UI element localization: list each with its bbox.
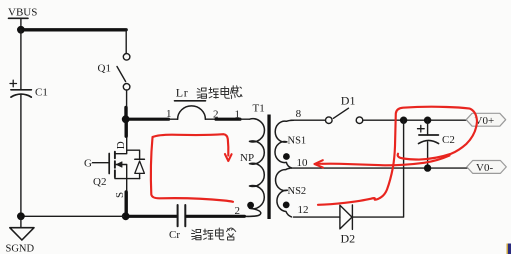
svg-text:D1: D1 [341, 94, 356, 108]
wire thick pin2 to pin1 [216, 118, 240, 121]
junction C2 branch on top wire [424, 117, 431, 124]
svg-text:G: G [84, 158, 92, 170]
wire pin10 center tap to V0- [291, 167, 467, 169]
svg-text:1: 1 [166, 108, 172, 120]
wire gate lead [93, 162, 110, 164]
junction half-bridge node [122, 115, 130, 123]
wire thick to Lr [126, 118, 169, 121]
wire switch Q1 upper lead [125, 30, 127, 54]
net flag V0- [467, 161, 507, 175]
svg-text:D: D [115, 141, 127, 149]
capacitor C1 [10, 80, 33, 97]
transformer T1 secondary winding NS2 [276, 168, 292, 217]
svg-text:Cr: Cr [169, 229, 180, 241]
svg-text:Q1: Q1 [98, 63, 111, 75]
transistor Q2 MOSFET [109, 136, 144, 193]
net flag V0+ [466, 113, 506, 127]
svg-text:NP: NP [240, 152, 254, 164]
wire left rail [20, 30, 22, 217]
switch Q1 [117, 54, 130, 91]
capacitor C2 [418, 120, 439, 167]
wire switch Q1 lower lead [126, 90, 128, 108]
capacitor Cr [178, 205, 186, 226]
junction VBUS node [17, 26, 25, 34]
wire bottom rail thick to Cr [126, 215, 177, 218]
switch D1 (drawn as contacts) [326, 108, 363, 123]
svg-text:NS2: NS2 [288, 186, 307, 197]
svg-text:T1: T1 [253, 103, 265, 115]
svg-text:Lr: Lr [176, 86, 189, 100]
svg-text:NS1: NS1 [288, 136, 307, 147]
junction source / bottom rail node [122, 212, 130, 220]
transformer T1 core [267, 115, 270, 220]
junction D2 branch on top wire [400, 117, 407, 124]
svg-text:C2: C2 [442, 134, 455, 146]
annotation red loop around C2 with tail [318, 107, 477, 205]
annotation red arrow to pin 10 [315, 156, 450, 168]
ground SGND symbol [10, 212, 34, 240]
wire thick source stub [124, 192, 127, 216]
svg-text:8: 8 [296, 108, 302, 120]
wire Cr to T1 primary bottom [186, 215, 244, 218]
label 谐振电感 (resonant inductor) [197, 86, 242, 99]
wire thick drain stub [124, 119, 127, 136]
transformer T1 primary winding NP [244, 119, 264, 217]
svg-text:C1: C1 [35, 87, 48, 99]
wire thick elbow above node [124, 108, 127, 120]
svg-text:VBUS: VBUS [8, 7, 37, 19]
wire bottom rail thin (SGND to Q2) [21, 215, 126, 217]
junction primary polarity dot [247, 202, 254, 209]
junction NS1 polarity dot [283, 153, 290, 160]
svg-text:Q2: Q2 [93, 176, 106, 188]
wire Lr underline mark [175, 100, 206, 102]
net VBUS label [8, 7, 37, 28]
junction C2 bottom node [424, 164, 431, 171]
wire pin8 to D1 [291, 119, 326, 121]
inductor Lr [178, 106, 206, 119]
svg-text:D2: D2 [341, 232, 356, 246]
wire thin to Lr hump [168, 118, 178, 120]
diode D2 [340, 205, 353, 230]
wire D1 to V0+ [363, 119, 467, 121]
wire into T1 primary [240, 118, 250, 120]
label 谐振电容 (resonant capacitor) [192, 228, 236, 240]
wire pin12 to D2 [294, 216, 340, 218]
transformer T1 secondary winding NS1 [275, 120, 294, 168]
annotation red primary current loop [151, 134, 233, 202]
wire VBUS bus top [21, 28, 126, 31]
svg-text:S: S [114, 192, 126, 198]
svg-text:12: 12 [298, 204, 309, 216]
wire D2 to output corner [352, 120, 403, 217]
wire Lr to pin2 [205, 118, 217, 120]
svg-text:V0-: V0- [476, 162, 493, 174]
taskbar artifact bottom right [507, 244, 511, 254]
svg-text:SGND: SGND [6, 244, 35, 254]
junction NS2 polarity dot [283, 202, 290, 209]
svg-text:10: 10 [297, 157, 309, 169]
